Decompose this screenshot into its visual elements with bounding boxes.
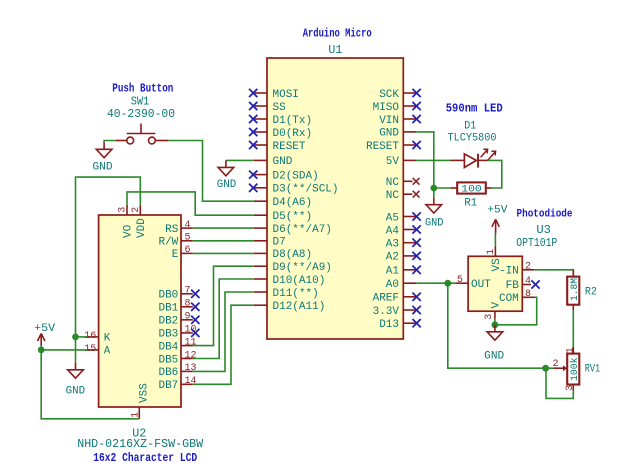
svg-text:GND: GND — [66, 385, 86, 397]
svg-text:D0(Rx): D0(Rx) — [273, 128, 313, 140]
svg-text:D8(A8): D8(A8) — [273, 249, 313, 261]
svg-text:1: 1 — [130, 412, 141, 418]
svg-text:DB0: DB0 — [158, 290, 178, 302]
U1 pin D6(**/A7) (left) — [254, 224, 332, 236]
ground left of U1 — [218, 160, 234, 175]
wire junction to ground — [433, 188, 435, 198]
reference U3 — [536, 223, 551, 237]
reference D1 — [464, 120, 476, 132]
svg-text:DB3: DB3 — [158, 329, 178, 341]
U2 pin DB7 — [158, 376, 196, 392]
wire R2 to RV1 — [572, 310, 574, 347]
svg-text:2: 2 — [525, 262, 531, 273]
RV1 pin 3 number — [565, 385, 576, 391]
svg-text:5: 5 — [185, 233, 191, 244]
svg-text:7: 7 — [185, 286, 191, 297]
wire U2 E to U1 D8 — [193, 252, 254, 254]
svg-text:5V: 5V — [386, 156, 400, 168]
label 16x2 Character LCD — [93, 451, 197, 465]
U1 pin D11(**) (left) — [254, 288, 319, 300]
wire U2 R/W to U1 D7 — [193, 240, 254, 242]
svg-text:V: V — [491, 302, 503, 309]
wire U2 RS to U1 D6 — [193, 227, 254, 229]
svg-text:A4: A4 — [386, 225, 400, 237]
wire junction to R1 — [434, 187, 450, 189]
value 100k — [569, 358, 581, 382]
wire LED to R1 — [488, 160, 502, 188]
svg-text:D9(**/A9): D9(**/A9) — [273, 262, 332, 274]
U1 pin D8(A8) (left) — [254, 249, 312, 261]
U2 pin DB4 — [158, 337, 196, 353]
junction A0-OUT node — [444, 280, 451, 287]
svg-text:AREF: AREF — [373, 293, 399, 305]
RV1 pin 2 number — [553, 359, 559, 370]
label Push Button — [112, 81, 173, 95]
label +5V at LCD — [34, 323, 55, 335]
svg-text:4: 4 — [525, 276, 531, 287]
svg-text:A2: A2 — [386, 252, 399, 264]
junction A node — [38, 347, 45, 354]
U1 pin VIN (right2) — [379, 115, 421, 127]
U1 pin D10(A10) (left) — [254, 275, 326, 287]
LED D1 symbol — [451, 149, 496, 167]
svg-text:U3: U3 — [536, 223, 551, 237]
U1 pin RESET (right4) — [366, 141, 421, 153]
svg-text:K: K — [104, 332, 111, 344]
svg-text:RESET: RESET — [273, 141, 306, 153]
svg-text:A3: A3 — [386, 239, 399, 251]
power +5V at LCD — [38, 334, 45, 346]
junction RV1 wiper node — [542, 365, 549, 372]
U1 pin D7 (left) — [254, 237, 286, 249]
svg-text:OPT101P: OPT101P — [516, 236, 557, 250]
wire U2 DB5 to U1 D10 — [193, 279, 254, 359]
wire U2 DB6 to U1 D11 — [193, 292, 254, 371]
U1 pin D2(SDA) (left) — [249, 170, 319, 182]
svg-text:NC: NC — [386, 190, 400, 202]
resistor R2 body — [567, 270, 579, 311]
svg-text:DB1: DB1 — [158, 303, 178, 315]
wire U1 5V to LED — [416, 159, 450, 161]
svg-text:GND: GND — [484, 351, 504, 363]
svg-text:3: 3 — [565, 385, 576, 391]
svg-text:SS: SS — [273, 102, 287, 114]
svg-text:VSS: VSS — [138, 383, 150, 403]
wire U3 -IN to R2 — [535, 270, 574, 277]
svg-text:1: 1 — [486, 249, 497, 255]
U1 pin D12(A11) (left) — [254, 301, 326, 313]
svg-text:590nm LED: 590nm LED — [446, 101, 503, 115]
U1 pin SS (left) — [249, 102, 286, 114]
U3 pin 1 VS (top) — [486, 246, 503, 272]
svg-text:-IN: -IN — [499, 265, 519, 277]
svg-text:A: A — [104, 345, 111, 357]
U1 pin SCK (right0) — [379, 89, 421, 101]
svg-text:GND: GND — [217, 179, 237, 191]
svg-text:A1: A1 — [386, 266, 400, 278]
value 40-2390-00 — [107, 107, 175, 121]
svg-text:MISO: MISO — [373, 102, 400, 114]
value 1.8M — [569, 278, 581, 301]
U3 pin 5 OUT (left) — [456, 275, 492, 291]
svg-text:100: 100 — [461, 184, 482, 196]
svg-text:GND: GND — [425, 218, 444, 230]
U1 pin A5 (right8) — [386, 212, 421, 224]
svg-text:R2: R2 — [585, 287, 597, 299]
value TLCY5800 — [448, 132, 497, 144]
svg-text:D7: D7 — [273, 237, 286, 249]
U1 pin D0(Rx) (left) — [249, 128, 312, 140]
svg-text:RESET: RESET — [366, 141, 399, 153]
svg-text:GND: GND — [379, 128, 399, 140]
U2 pin 16 K (left) — [84, 331, 111, 344]
potentiometer RV1 body — [554, 347, 580, 391]
svg-text:3.3V: 3.3V — [373, 306, 400, 318]
wire SW1 right to U1 D4 — [169, 141, 254, 202]
U1 pin D3(**/SCL) (left) — [249, 184, 338, 196]
label GND below K — [66, 385, 86, 397]
svg-text:D10(A10): D10(A10) — [273, 275, 326, 287]
svg-text:40-2390-00: 40-2390-00 — [107, 107, 175, 121]
U2 pin 15 A (left) — [84, 344, 111, 357]
svg-text:OUT: OUT — [471, 279, 491, 291]
label GND right of U1 — [425, 218, 444, 230]
U1 pin D9(**/A9) (left) — [254, 262, 332, 274]
U2 pin DB2 — [158, 312, 199, 328]
reference SW1 — [131, 94, 150, 108]
svg-text:4: 4 — [185, 220, 191, 231]
svg-text:8: 8 — [185, 299, 191, 310]
wire K junction to pin — [76, 336, 88, 338]
svg-text:TLCY5800: TLCY5800 — [448, 132, 497, 144]
U2 pin 2 VDD (top) — [131, 205, 148, 238]
svg-text:D5(**): D5(**) — [273, 211, 313, 223]
svg-text:1.8M: 1.8M — [569, 278, 581, 301]
svg-text:GND: GND — [273, 156, 293, 168]
svg-text:DB4: DB4 — [158, 341, 178, 353]
wire A0 node down to RV1 wiper — [448, 283, 546, 368]
svg-text:E: E — [172, 249, 179, 261]
svg-text:2: 2 — [131, 207, 142, 213]
ground below K — [68, 363, 84, 378]
wire K junction to ground — [75, 337, 77, 363]
svg-text:GND: GND — [93, 161, 113, 173]
wire wiper node to RV1 — [546, 367, 554, 369]
svg-text:DB6: DB6 — [158, 367, 178, 379]
svg-text:D12(A11): D12(A11) — [273, 301, 326, 313]
svg-text:11: 11 — [185, 337, 197, 348]
svg-text:6: 6 — [185, 245, 191, 256]
reference RV1 — [585, 364, 601, 376]
wire +5V to A junction — [40, 346, 42, 350]
U2 pin DB0 — [158, 286, 199, 302]
svg-text:14: 14 — [185, 376, 197, 387]
svg-text:NC: NC — [386, 177, 400, 189]
U1 pin GND (left) — [254, 156, 293, 168]
U2 pin DB1 — [158, 299, 199, 315]
wire U1 A0 to U3 OUT — [416, 282, 455, 284]
svg-text:MOSI: MOSI — [273, 89, 299, 101]
svg-text:+5V: +5V — [34, 323, 55, 335]
U1 pin A0 (right13) — [386, 279, 416, 291]
svg-text:A0: A0 — [386, 279, 399, 291]
label Photodiode — [517, 208, 573, 220]
U3 pin 2 -IN (right) — [499, 262, 535, 278]
U1 pin A1 (right12) — [386, 266, 421, 278]
U2 pin 1 VSS (bottom) — [130, 383, 150, 419]
reference R1 — [464, 198, 477, 210]
U3 pin 8 COM (right) — [499, 289, 535, 305]
ground below U3 — [487, 325, 503, 340]
svg-text:D6(**/A7): D6(**/A7) — [273, 224, 332, 236]
svg-text:SCK: SCK — [379, 89, 399, 101]
RV1 pin 1 number — [565, 347, 576, 353]
svg-text:DB5: DB5 — [158, 354, 178, 366]
svg-text:D2(SDA): D2(SDA) — [273, 170, 319, 182]
U1 pin A2 (right11) — [386, 252, 421, 264]
svg-text:RV1: RV1 — [585, 364, 601, 376]
svg-text:R/W: R/W — [158, 237, 178, 249]
U1 pin D4(A6) (left) — [254, 197, 312, 209]
svg-text:A5: A5 — [386, 212, 399, 224]
U1 pin 5V (right5) — [386, 156, 416, 168]
U1 pin 3.3V (right15) — [373, 306, 421, 318]
wire U2 VDD to ground net — [76, 177, 141, 337]
U2 pin 3 VO (top) — [118, 205, 135, 238]
wire U1 GND right to junction — [416, 132, 434, 188]
svg-text:8: 8 — [525, 289, 531, 300]
svg-text:RS: RS — [165, 224, 179, 236]
svg-text:R1: R1 — [464, 198, 477, 210]
junction GND-R1 node — [430, 185, 437, 192]
label GND left of U1 — [217, 179, 237, 191]
wire A junction to pin — [41, 349, 87, 351]
wire +5V to U3 VS — [494, 234, 496, 246]
IC U1 Arduino Micro body — [267, 58, 403, 339]
wire SW1 left to GND — [104, 141, 116, 143]
U1 pin NC (right7) — [386, 190, 420, 202]
svg-text:D13: D13 — [379, 319, 399, 331]
U1 pin D1(Tx) (left) — [249, 115, 312, 127]
svg-text:D11(**): D11(**) — [273, 288, 319, 300]
svg-text:DB7: DB7 — [158, 380, 178, 392]
svg-text:12: 12 — [185, 350, 197, 361]
wire U2 DB7 to U1 D12 — [193, 305, 254, 384]
U2 pin E — [172, 245, 193, 261]
U1 pin GND (right3) — [379, 128, 416, 140]
label 590nm LED — [446, 101, 503, 115]
svg-text:1: 1 — [565, 347, 576, 353]
U2 pin DB6 — [158, 363, 196, 379]
wire U2 DB4 to U1 D9 — [193, 266, 254, 345]
label Arduino Micro — [303, 26, 372, 40]
svg-text:VDD: VDD — [136, 218, 148, 238]
U1 pin D13 (right16) — [379, 319, 421, 331]
U2 pin DB5 — [158, 350, 196, 366]
value OPT101P — [516, 236, 557, 250]
svg-text:100k: 100k — [569, 358, 581, 382]
U1 pin A4 (right9) — [386, 225, 421, 237]
ground at SW1 — [96, 142, 112, 157]
power +5V at U3 — [492, 219, 499, 233]
U3 pin 4 FB (right) — [506, 276, 540, 292]
svg-text:D3(**/SCL): D3(**/SCL) — [273, 184, 339, 196]
U1 pin A3 (right10) — [386, 239, 421, 251]
wire U3 pin3 to ground — [494, 319, 496, 325]
svg-text:D1(Tx): D1(Tx) — [273, 115, 313, 127]
svg-text:+5V: +5V — [487, 205, 507, 217]
U1 pin NC (right6) — [386, 177, 420, 189]
junction K node — [72, 334, 79, 341]
svg-text:VIN: VIN — [379, 115, 399, 127]
U1 pin RESET (left) — [249, 141, 306, 153]
label +5V at U3 — [487, 205, 507, 217]
svg-text:D4(A6): D4(A6) — [273, 197, 313, 209]
U3 pin 3 V- (bottom) — [484, 302, 503, 320]
svg-text:NHD-0216XZ-FSW-GBW: NHD-0216XZ-FSW-GBW — [77, 437, 204, 451]
U1 pin AREF (right14) — [373, 293, 421, 305]
svg-text:U1: U1 — [328, 43, 342, 57]
label GND below U3 — [484, 351, 504, 363]
U2 pin RS — [165, 220, 193, 236]
resistor R1 body — [450, 182, 492, 193]
svg-text:VO: VO — [123, 224, 135, 238]
value 100 — [461, 184, 482, 196]
IC U2 LCD body — [99, 215, 181, 407]
svg-text:Push Button: Push Button — [112, 81, 173, 95]
ground right of U1 — [426, 198, 442, 213]
wire A junction to VSS — [41, 350, 139, 419]
U1 pin D5(**) (left) — [254, 211, 312, 223]
reference R2 — [585, 287, 597, 299]
U1 pin MOSI (left) — [249, 89, 299, 101]
switch SW1 symbol — [116, 124, 169, 144]
svg-text:Arduino Micro: Arduino Micro — [303, 26, 372, 40]
wire U3 pin8 loop — [495, 297, 537, 325]
wire U2 VO to U1 D5 — [127, 192, 254, 215]
svg-text:13: 13 — [185, 363, 197, 374]
wire RV1 pin3 loop — [546, 368, 573, 398]
IC U3 body — [468, 256, 522, 311]
svg-text:FB: FB — [506, 280, 520, 292]
svg-text:5: 5 — [457, 275, 463, 286]
reference U2 — [132, 427, 146, 441]
U1 pin MISO (right1) — [373, 102, 421, 114]
svg-text:9: 9 — [185, 312, 191, 323]
reference U1 — [328, 43, 342, 57]
value NHD-0216XZ-FSW-GBW — [77, 437, 204, 451]
junction U3 ground node — [492, 321, 499, 328]
svg-text:3: 3 — [484, 314, 495, 320]
svg-text:D1: D1 — [464, 120, 476, 132]
label GND at SW1 — [93, 161, 113, 173]
U2 pin R/W — [158, 233, 192, 249]
U2 pin DB3 — [158, 325, 199, 341]
svg-text:16x2 Character LCD: 16x2 Character LCD — [93, 451, 197, 465]
svg-text:Photodiode: Photodiode — [517, 208, 573, 220]
wire U1 GND left — [226, 159, 254, 161]
svg-text:3: 3 — [118, 207, 129, 213]
svg-text:DB2: DB2 — [158, 316, 178, 328]
